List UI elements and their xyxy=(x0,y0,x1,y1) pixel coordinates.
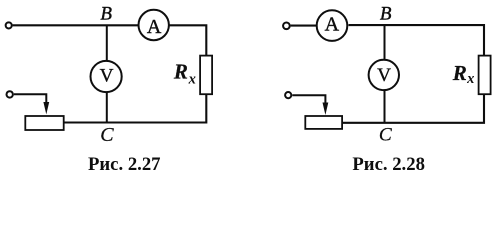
wire: terminal J1 to ammeter, through node B xyxy=(13,24,139,26)
svg-text:C: C xyxy=(379,125,393,146)
wire: terminal J3 to ammeter xyxy=(291,25,317,27)
wire: voltmeter down to node C xyxy=(384,90,386,123)
wire: terminal J2 to rheostat slider xyxy=(14,94,47,104)
svg-text:A: A xyxy=(325,14,340,36)
wire: voltmeter down to node C xyxy=(106,92,108,123)
terminal J1 (top-left input) xyxy=(6,22,12,28)
ammeter A (right) xyxy=(317,10,348,41)
svg-text:Рис. 2.27: Рис. 2.27 xyxy=(88,154,161,175)
terminal J3 (top-left input, right circuit) xyxy=(283,22,290,29)
wire: resistor Rx bottom, bottom-right corner, bottom rail to rheostat xyxy=(343,95,485,123)
svg-text:C: C xyxy=(100,124,114,146)
terminal J2 (bottom-left input) xyxy=(7,91,13,97)
svg-text:A: A xyxy=(147,16,162,38)
wire: ammeter through node B to top-right corner, down to resistor Rx xyxy=(349,25,485,55)
wire: node B down to voltmeter xyxy=(106,25,108,61)
rheostat slider arrow (left) xyxy=(43,102,49,114)
svg-text:Рис. 2.28: Рис. 2.28 xyxy=(352,154,425,175)
svg-text:x: x xyxy=(466,71,474,87)
svg-text:B: B xyxy=(100,4,112,25)
resistor Rx (right) xyxy=(479,56,491,95)
wire: node B down to voltmeter xyxy=(384,25,386,60)
svg-text:x: x xyxy=(188,71,196,87)
wire: ammeter to top-right corner, down to resistor Rx xyxy=(169,25,206,55)
wire: terminal J4 to rheostat slider xyxy=(292,95,325,104)
rheostat R1 (left) xyxy=(25,116,63,130)
ammeter A (left) xyxy=(139,10,169,40)
svg-text:V: V xyxy=(100,65,114,86)
svg-text:B: B xyxy=(380,3,392,24)
resistor Rx (left) xyxy=(200,56,212,95)
svg-text:R: R xyxy=(173,59,188,83)
voltmeter V (left) xyxy=(91,61,122,92)
svg-text:V: V xyxy=(377,65,391,86)
terminal J4 (bottom-left input, right circuit) xyxy=(285,92,291,98)
rheostat R2 (right) xyxy=(305,116,342,129)
rheostat slider arrow (right) xyxy=(323,103,329,116)
svg-text:R: R xyxy=(452,61,467,85)
voltmeter V (right) xyxy=(369,60,399,90)
wire: resistor Rx bottom, bottom-right corner, bottom rail to rheostat xyxy=(64,95,206,123)
